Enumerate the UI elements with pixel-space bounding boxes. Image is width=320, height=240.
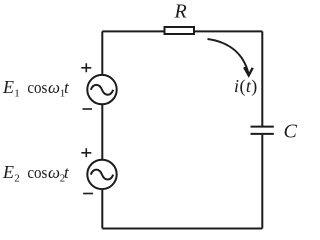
svg-text:ω: ω: [48, 163, 60, 182]
svg-text:E: E: [2, 77, 14, 97]
svg-text:C: C: [284, 121, 298, 143]
svg-text:2: 2: [14, 172, 19, 184]
svg-text:cos: cos: [27, 78, 47, 97]
svg-text:cos: cos: [27, 163, 47, 182]
svg-text:1: 1: [14, 88, 19, 100]
svg-text:i(t): i(t): [234, 76, 257, 97]
svg-text:R: R: [174, 1, 187, 23]
svg-text:E: E: [2, 162, 14, 182]
svg-text:ω: ω: [48, 78, 60, 97]
